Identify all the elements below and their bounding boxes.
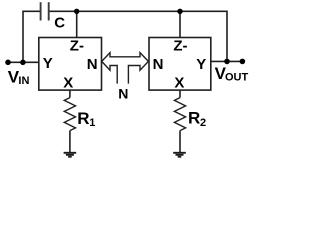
- svg-text:OUT: OUT: [225, 72, 249, 84]
- svg-text:IN: IN: [18, 75, 29, 87]
- wire: R2 to ground: [179, 131, 181, 152]
- svg-text:N: N: [87, 56, 98, 73]
- junction: Vout / top rail: [224, 59, 230, 65]
- wire: U2 X pin down to R2: [179, 90, 181, 98]
- resistor R1: [64, 98, 75, 131]
- wire: U1 X pin down to R1: [69, 90, 71, 98]
- node: Vout terminal: [240, 59, 246, 65]
- wire: top rail from capacitor right plate to Vout junction: [50, 11, 227, 61]
- wire: right Z- drop from top rail to U2 Z- pin: [179, 11, 181, 37]
- node N: hollow double-arrow connector between U1.N and U2.N with stem: [102, 53, 149, 84]
- junction: top rail / U2 Z-: [177, 9, 182, 14]
- wire: R1 to ground: [69, 131, 71, 152]
- ground (under R1): [64, 153, 77, 157]
- junction: top rail / U1 Z-: [74, 9, 79, 14]
- svg-text:2: 2: [200, 117, 206, 129]
- label VIN: [8, 67, 30, 86]
- wire: left Z- drop from top rail to U1 Z- pin: [76, 11, 78, 37]
- capacitor C: [41, 2, 49, 20]
- svg-text:X: X: [174, 75, 184, 92]
- label R1: [77, 109, 95, 129]
- svg-text:R: R: [188, 109, 200, 128]
- resistor R2: [174, 98, 185, 131]
- svg-text:Y: Y: [43, 55, 53, 72]
- op-amp U2 (CCII- current conveyor, right block): [149, 38, 211, 91]
- wire: Vout output lead: [211, 60, 243, 62]
- wire: Vin input lead: [8, 61, 39, 63]
- node: Vin terminal: [5, 60, 11, 66]
- svg-text:Y: Y: [196, 56, 206, 73]
- junction: Vin / capacitor branch: [20, 60, 26, 66]
- ground (under R2): [173, 153, 186, 157]
- svg-text:Z-: Z-: [173, 37, 187, 54]
- svg-text:N: N: [118, 86, 128, 102]
- svg-text:Z-: Z-: [70, 37, 84, 54]
- op-amp U1 (CCII- current conveyor, left block): [39, 38, 102, 91]
- svg-text:R: R: [77, 109, 89, 128]
- label VOUT: [215, 64, 249, 83]
- svg-text:1: 1: [89, 117, 95, 129]
- label R2: [188, 109, 206, 129]
- wire: Vin node up and over to capacitor left plate: [23, 11, 40, 62]
- svg-text:N: N: [153, 56, 164, 73]
- svg-text:C: C: [54, 15, 65, 32]
- svg-text:X: X: [63, 75, 73, 92]
